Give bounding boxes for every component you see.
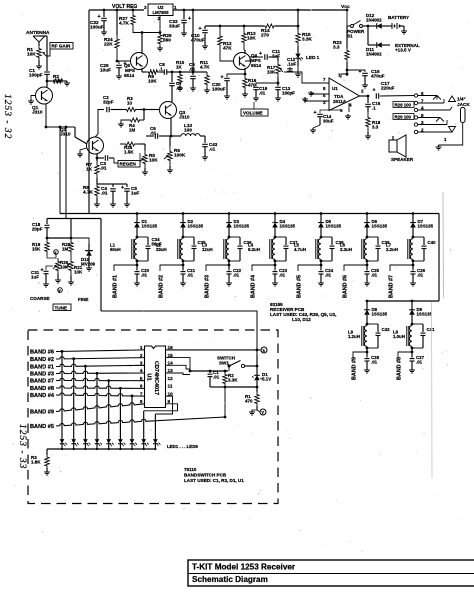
wire U2 pin 2 bbox=[133, 16, 160, 33]
wire band stub #8 bbox=[398, 352, 412, 357]
svg-text:Schematic Diagram: Schematic Diagram bbox=[192, 575, 268, 584]
svg-text:15K: 15K bbox=[32, 247, 41, 252]
svg-text:6: 6 bbox=[140, 384, 143, 389]
inductor L1 60uH bbox=[134, 239, 137, 260]
wire band row #1 bbox=[56, 364, 145, 366]
capacitor C19 bbox=[256, 83, 278, 86]
svg-text:4: 4 bbox=[140, 368, 143, 373]
svg-text:1SS135: 1SS135 bbox=[234, 223, 250, 228]
svg-text:1uF: 1uF bbox=[131, 191, 139, 196]
resistor R23 bbox=[346, 26, 348, 48]
resistor R2 3.3K bbox=[224, 370, 227, 373]
transistor Q5 MPS6514 bbox=[131, 53, 148, 70]
wire LED7 column bbox=[131, 395, 134, 398]
ground C27 bbox=[411, 368, 413, 370]
wire U1 pin1 to supply bbox=[341, 74, 347, 78]
label TUNE bbox=[53, 304, 71, 311]
svg-text:1.5K: 1.5K bbox=[124, 150, 134, 155]
wire band stub #5 bbox=[298, 265, 321, 271]
capacitor C32 bbox=[103, 9, 106, 12]
svg-text:1/4": 1/4" bbox=[457, 97, 466, 102]
svg-text:T-KIT Model 1253 Receiver: T-KIT Model 1253 Receiver bbox=[192, 563, 296, 572]
inductor L5 4.7uH bbox=[318, 239, 321, 260]
svg-text:C42: C42 bbox=[382, 327, 391, 332]
ground R20 bbox=[57, 274, 59, 278]
svg-text:BAND #5: BAND #5 bbox=[30, 424, 54, 430]
svg-text:1SS135: 1SS135 bbox=[372, 223, 388, 228]
svg-text:1.8K: 1.8K bbox=[31, 460, 41, 465]
svg-text:.01: .01 bbox=[100, 166, 107, 171]
op-amp U1 TDA2611A bbox=[329, 78, 360, 111]
wire pin15 bbox=[166, 358, 191, 371]
wire band row #7 bbox=[56, 378, 145, 380]
wire band row #6 bbox=[56, 350, 145, 352]
wire D1 to R1 bbox=[256, 384, 258, 392]
wire band row #9 bbox=[56, 403, 145, 412]
svg-text:100: 100 bbox=[184, 128, 192, 133]
svg-text:1uF: 1uF bbox=[31, 275, 39, 280]
svg-text:470uF: 470uF bbox=[191, 38, 205, 43]
svg-text:33uF: 33uF bbox=[169, 24, 180, 29]
svg-text:100uF: 100uF bbox=[90, 25, 104, 30]
svg-text:.01: .01 bbox=[259, 91, 266, 96]
transistor Q1 J310 bbox=[46, 81, 48, 87]
svg-text:.01: .01 bbox=[209, 147, 216, 152]
resistor R27 bbox=[132, 9, 135, 12]
wire emitter to C11 bbox=[245, 57, 263, 61]
capacitor C15 bbox=[367, 96, 369, 103]
inductor L10 bbox=[171, 135, 181, 137]
svg-text:22K: 22K bbox=[104, 42, 113, 47]
svg-text:.01: .01 bbox=[150, 131, 157, 136]
svg-text:+: + bbox=[221, 75, 224, 81]
svg-text:.01: .01 bbox=[371, 272, 378, 277]
svg-text:LAST USED: C1, R3, D1, U1: LAST USED: C1, R3, D1, U1 bbox=[184, 478, 244, 483]
svg-text:.01: .01 bbox=[416, 359, 423, 364]
svg-text:LED 1: LED 1 bbox=[306, 55, 320, 60]
capacitor C14 bbox=[320, 110, 340, 113]
svg-text:3.3: 3.3 bbox=[372, 125, 379, 130]
svg-text:BAND #1: BAND #1 bbox=[30, 365, 54, 371]
jack contact 6 bbox=[414, 94, 417, 97]
capacitor C7 bbox=[171, 72, 173, 82]
zener D1 5.1V bbox=[256, 371, 258, 375]
antenna bbox=[33, 36, 45, 42]
node Y link bbox=[58, 288, 63, 293]
svg-text:ANTENNA: ANTENNA bbox=[26, 30, 50, 36]
capacitor C42 bbox=[377, 324, 379, 332]
node L7 top bbox=[412, 236, 415, 239]
wire pin10 loop bbox=[155, 396, 172, 414]
wire LED8 column bbox=[143, 411, 145, 434]
svg-text:8: 8 bbox=[140, 399, 143, 404]
wire LED1 column bbox=[61, 350, 64, 353]
capacitor C36 bbox=[239, 237, 241, 245]
wire pin16 to X bbox=[166, 349, 258, 351]
capacitor C8 bbox=[163, 69, 165, 75]
node L5 top bbox=[320, 236, 323, 239]
svg-text:L10, D12: L10, D12 bbox=[292, 317, 311, 322]
svg-text:6.8K: 6.8K bbox=[53, 79, 64, 84]
svg-text:C41: C41 bbox=[427, 327, 436, 332]
wire band row #5 drop bbox=[224, 416, 227, 419]
svg-text:R28 100: R28 100 bbox=[395, 102, 412, 107]
svg-text:14: 14 bbox=[168, 361, 174, 366]
svg-text:100K: 100K bbox=[174, 153, 186, 158]
svg-text:U1: U1 bbox=[332, 86, 338, 91]
svg-text:BAND #9: BAND #9 bbox=[352, 357, 358, 380]
node L8 top bbox=[411, 323, 414, 326]
node L2 top bbox=[182, 236, 185, 239]
capacitor C25 .01 bbox=[366, 265, 368, 271]
capacitor C35 bbox=[193, 237, 195, 245]
capacitor C2 bbox=[106, 107, 108, 113]
svg-text:JACK: JACK bbox=[457, 102, 470, 107]
wire band stub #7 bbox=[390, 265, 413, 271]
wire supply vertical x193 bbox=[192, 9, 195, 12]
potentiometer R17 bbox=[277, 57, 279, 61]
node L2 bottom bbox=[182, 260, 184, 266]
node Vcc bbox=[346, 9, 349, 12]
wire band stub #6 bbox=[344, 265, 367, 271]
svg-text:7: 7 bbox=[140, 391, 143, 396]
LED1 bbox=[61, 434, 63, 439]
resistor R15 bbox=[296, 30, 300, 46]
ground below R1 bbox=[38, 60, 40, 64]
node L8 bottom bbox=[411, 347, 413, 353]
resistor R13 bbox=[243, 25, 246, 28]
svg-text:FINE: FINE bbox=[78, 297, 88, 302]
resistor R18 bbox=[366, 112, 370, 132]
svg-text:1SS135: 1SS135 bbox=[326, 223, 342, 228]
wire band row #4 bbox=[56, 393, 145, 396]
svg-text:470: 470 bbox=[245, 399, 253, 404]
wire band stub #1 bbox=[114, 265, 137, 271]
LED4 bbox=[96, 434, 98, 439]
ground at Q2 gate bbox=[80, 148, 87, 152]
wire R12 to Q4 base bbox=[220, 55, 234, 61]
wire Q3 source down bbox=[170, 118, 172, 136]
svg-text:2.2uH: 2.2uH bbox=[386, 247, 398, 252]
svg-text:VOLUME: VOLUME bbox=[243, 111, 263, 116]
wire R15 column bbox=[297, 9, 300, 12]
diode D11 1N4002 bbox=[367, 25, 370, 28]
inductor L4 8.2uH bbox=[272, 239, 275, 260]
svg-text:1253 - 33: 1253 - 33 bbox=[17, 424, 27, 469]
svg-text:.1: .1 bbox=[372, 106, 376, 111]
svg-text:3.3K: 3.3K bbox=[228, 378, 238, 383]
jack contact 3 bbox=[414, 123, 417, 126]
ground jack bbox=[439, 123, 463, 146]
capacitor C20 .01 bbox=[136, 265, 138, 271]
inductor L2 33uH bbox=[180, 239, 183, 260]
jack contact 5 bbox=[414, 116, 417, 119]
resistor R1 470 bbox=[255, 392, 259, 406]
inductor L6 3.3uH bbox=[364, 239, 367, 260]
svg-text:32pF: 32pF bbox=[103, 100, 114, 105]
svg-text:.01: .01 bbox=[189, 67, 196, 72]
wire Q3 gate line bbox=[95, 134, 98, 137]
potentiometer R5 bbox=[140, 143, 145, 145]
capacitor C38 bbox=[331, 237, 333, 245]
svg-text:BAND #6: BAND #6 bbox=[343, 275, 349, 298]
svg-text:4.7K: 4.7K bbox=[119, 21, 130, 26]
LED3 bbox=[84, 434, 86, 439]
ground C28 bbox=[366, 368, 368, 370]
ground U1 pin5 bbox=[311, 91, 329, 94]
capacitor C30 bbox=[227, 74, 245, 77]
wire LED9 column bbox=[154, 414, 156, 434]
jack contact 2 bbox=[414, 130, 417, 133]
svg-text:U1: U1 bbox=[146, 373, 152, 380]
wire X column bbox=[256, 355, 258, 371]
LED7 bbox=[131, 434, 133, 439]
capacitor C31 bbox=[46, 266, 53, 270]
wire pin14 bbox=[166, 365, 191, 369]
svg-text:BAND #5: BAND #5 bbox=[297, 275, 303, 298]
node L9 bottom bbox=[366, 347, 368, 353]
svg-text:1.0uH: 1.0uH bbox=[393, 334, 405, 339]
svg-text:COARSE: COARSE bbox=[30, 296, 50, 301]
capacitor C23 .01 bbox=[274, 265, 276, 271]
ground at Q1 gate bbox=[31, 96, 36, 100]
diode D6 1SS135 bbox=[366, 212, 369, 215]
ground below R6 bbox=[169, 166, 171, 168]
LED6 bbox=[119, 434, 121, 439]
capacitor C43 bbox=[204, 136, 206, 143]
resistor R19 bbox=[46, 237, 49, 240]
capacitor C9 bbox=[180, 71, 193, 73]
wire volume net bbox=[253, 102, 255, 109]
svg-text:+: + bbox=[121, 185, 124, 191]
wire band stub #4 bbox=[252, 265, 275, 271]
wire band stub #9 bbox=[353, 352, 367, 357]
svg-text:+: + bbox=[373, 88, 376, 94]
label REGEN bbox=[118, 161, 140, 168]
diode D5 1SS135 bbox=[320, 212, 323, 215]
svg-text:BAND #4: BAND #4 bbox=[30, 393, 55, 399]
resistor R3 1.8K bbox=[46, 449, 48, 455]
svg-text:8.2uH: 8.2uH bbox=[248, 247, 260, 252]
capacitor C12 bbox=[284, 67, 290, 72]
wire varactor line down bbox=[100, 219, 102, 312]
wire long vertical rail to bus bbox=[88, 10, 90, 214]
svg-text:10: 10 bbox=[127, 101, 132, 106]
wire LED3 column bbox=[84, 365, 87, 368]
svg-text:BAND #7: BAND #7 bbox=[30, 379, 54, 385]
wire band stub #2 bbox=[160, 265, 183, 271]
capacitor C1 .01 bbox=[209, 370, 212, 373]
node L7 bottom bbox=[412, 260, 414, 266]
wire Q4 emitter down bbox=[244, 68, 246, 74]
potentiometer R21 FINE bbox=[69, 256, 73, 276]
transistor Q3 J310 bbox=[160, 102, 177, 119]
svg-text:J310: J310 bbox=[179, 115, 190, 120]
svg-text:1SS135: 1SS135 bbox=[417, 311, 433, 316]
node C8/C7 bbox=[171, 71, 174, 74]
capacitor C17 bbox=[375, 93, 377, 99]
capacitor C29 bbox=[117, 61, 119, 64]
svg-text:BANDSWITCH PCB: BANDSWITCH PCB bbox=[184, 473, 227, 478]
wire supply to U1 bbox=[346, 62, 348, 76]
resistor R25 bbox=[120, 142, 140, 146]
wire band stub #3 bbox=[206, 265, 229, 271]
svg-text:LED1 . . . LED9: LED1 . . . LED9 bbox=[167, 444, 198, 449]
wire Vcc to switch bbox=[347, 10, 350, 26]
wire Q3 drain from C7 bbox=[171, 91, 173, 102]
svg-text:6514: 6514 bbox=[124, 73, 135, 78]
svg-text:13: 13 bbox=[168, 368, 174, 373]
wire C1/R2 bottom bbox=[210, 386, 225, 388]
svg-text:Y: Y bbox=[261, 410, 264, 415]
wire vertical to main bus bbox=[59, 127, 61, 214]
svg-text:BAND #9: BAND #9 bbox=[30, 410, 54, 416]
svg-text:3.3: 3.3 bbox=[333, 45, 340, 50]
svg-text:1SS135: 1SS135 bbox=[142, 223, 158, 228]
wire band row #5 bbox=[56, 417, 225, 426]
resistor R3 bbox=[122, 108, 140, 112]
inductor L3 12uH bbox=[226, 239, 229, 260]
node Q3 gate bbox=[140, 109, 144, 111]
capacitor C39 bbox=[377, 237, 379, 245]
svg-text:560: 560 bbox=[163, 38, 171, 43]
svg-text:1SS135: 1SS135 bbox=[418, 223, 434, 228]
svg-text:100uF: 100uF bbox=[212, 87, 226, 92]
speaker LS1 bbox=[389, 140, 397, 152]
svg-text:BAND #2: BAND #2 bbox=[159, 275, 165, 298]
capacitor C5 bbox=[113, 183, 127, 185]
svg-text:1: 1 bbox=[140, 345, 143, 350]
svg-text:1SS135: 1SS135 bbox=[372, 311, 388, 316]
wire band row #3 bbox=[56, 371, 145, 373]
ground C20 bbox=[136, 281, 138, 283]
capacitor C37 bbox=[285, 237, 287, 245]
svg-text:.01: .01 bbox=[141, 272, 148, 277]
node L4 top bbox=[274, 236, 277, 239]
wire main bus bbox=[60, 213, 439, 215]
wire C1 to Q1 bbox=[46, 74, 48, 81]
svg-text:1SS135: 1SS135 bbox=[280, 223, 296, 228]
capacitor C16 bbox=[347, 70, 365, 72]
svg-text:BAND #8: BAND #8 bbox=[397, 357, 403, 380]
wire Q4 collector bbox=[244, 50, 246, 54]
ground at Y bbox=[256, 406, 258, 410]
ground right of R2 bbox=[64, 80, 67, 82]
ground R4 bbox=[121, 120, 126, 122]
ground U1 pin4 bbox=[348, 103, 350, 112]
diode D1 1SS135 bbox=[136, 212, 139, 215]
svg-text:5.1V: 5.1V bbox=[262, 377, 271, 382]
capacitor C18 bbox=[46, 219, 48, 225]
svg-text:10K: 10K bbox=[247, 36, 256, 41]
svg-text:10: 10 bbox=[168, 391, 174, 396]
resistor R16 bbox=[243, 74, 247, 92]
svg-text:BAND #1: BAND #1 bbox=[113, 275, 119, 298]
node X link bbox=[54, 250, 59, 255]
svg-text:.01: .01 bbox=[187, 272, 194, 277]
resistor R12 bbox=[219, 25, 222, 28]
capacitor C11 bbox=[264, 54, 266, 60]
svg-text:100pF: 100pF bbox=[29, 73, 43, 78]
svg-text:CD74HC4017: CD74HC4017 bbox=[153, 361, 159, 395]
switch S1 POWER bbox=[351, 25, 354, 28]
wire R5 wiper bbox=[139, 153, 141, 162]
node Y bbox=[260, 409, 266, 415]
inductor L7 2.2uH bbox=[410, 239, 413, 260]
svg-text:BAND #8: BAND #8 bbox=[30, 386, 54, 392]
wire REGEN net bbox=[114, 158, 118, 163]
wire LED cathode bus bbox=[47, 448, 155, 450]
LED2 bbox=[73, 434, 75, 439]
wire C18 junction to R22 bbox=[47, 237, 71, 239]
svg-text:J310: J310 bbox=[32, 110, 43, 115]
capacitor C13 bbox=[277, 83, 279, 86]
bandswitch PCB outline (dashed) bbox=[28, 330, 278, 504]
svg-text:BAND #2: BAND #2 bbox=[30, 357, 54, 363]
svg-text:10K: 10K bbox=[149, 158, 158, 163]
diode D7 1SS135 bbox=[412, 212, 415, 215]
svg-text:BATTERY: BATTERY bbox=[388, 15, 409, 20]
svg-text:S1: S1 bbox=[347, 34, 353, 39]
svg-text:220uF: 220uF bbox=[381, 86, 395, 91]
svg-text:10uF: 10uF bbox=[100, 68, 111, 73]
LED8 bbox=[143, 434, 145, 439]
inductor L9 1.2uH bbox=[364, 326, 367, 347]
svg-text:+: + bbox=[259, 51, 262, 57]
transistor Q2 J310 bbox=[74, 127, 76, 137]
svg-text:.1: .1 bbox=[159, 67, 163, 72]
svg-text:.01: .01 bbox=[371, 359, 378, 364]
resistor R4 bbox=[143, 110, 145, 121]
svg-text:15: 15 bbox=[168, 353, 174, 358]
svg-text:3.3K: 3.3K bbox=[302, 37, 313, 42]
jack J1 contacts bbox=[418, 95, 437, 97]
ground C22 bbox=[228, 281, 230, 283]
ground C21 bbox=[182, 281, 184, 283]
capacitor C10 bbox=[204, 26, 206, 29]
svg-text:SPEAKER: SPEAKER bbox=[391, 157, 414, 162]
inductor L8 1.0uH bbox=[409, 326, 412, 347]
resistor R22 bbox=[70, 219, 72, 239]
transistor Q4 MPS6514 bbox=[234, 53, 251, 70]
svg-text:.01: .01 bbox=[325, 272, 332, 277]
capacitor C40 bbox=[423, 237, 425, 245]
svg-text:47K: 47K bbox=[223, 46, 232, 51]
capacitor C6 bbox=[146, 135, 154, 137]
wire second rail bbox=[205, 25, 264, 27]
svg-text:+: + bbox=[188, 16, 191, 22]
wire vertical to tune bus bbox=[65, 127, 67, 219]
resistor R24 bbox=[116, 9, 119, 12]
node L6 top bbox=[366, 236, 369, 239]
diode D8 1SS135 bbox=[366, 300, 369, 303]
wire switch node bbox=[190, 370, 228, 372]
svg-text:MV209: MV209 bbox=[81, 262, 96, 267]
ground D10 bbox=[88, 262, 90, 266]
wire speaker stub bbox=[392, 136, 394, 140]
label VOLUME bbox=[241, 109, 268, 116]
wire R24 to Q5 base bbox=[117, 52, 131, 61]
wire SW1 to X column bbox=[245, 365, 257, 367]
svg-text:3.3uH: 3.3uH bbox=[340, 247, 352, 252]
svg-text:12uH: 12uH bbox=[202, 247, 213, 252]
varactor D10 MV209 bbox=[71, 238, 89, 244]
ground C26 bbox=[412, 281, 414, 283]
resistor R8 bbox=[96, 178, 98, 184]
svg-text:RF GAIN: RF GAIN bbox=[52, 44, 71, 49]
wire band row #8 bbox=[56, 386, 145, 389]
svg-text:1253 - 32: 1253 - 32 bbox=[2, 94, 12, 139]
